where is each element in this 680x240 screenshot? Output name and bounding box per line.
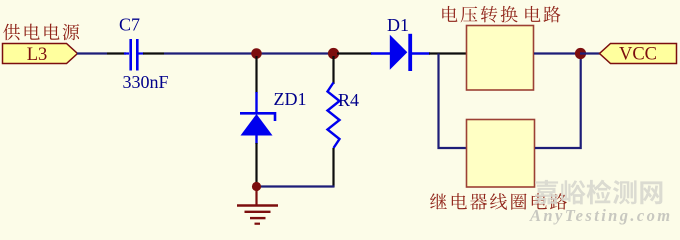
zener diode ZD1 bbox=[240, 92, 275, 144]
wire node C to VCC bbox=[580, 52, 600, 54]
diode D1 bbox=[390, 34, 412, 71]
pin D1 cathode bbox=[412, 52, 430, 54]
watermark 嘉峪检测网 bbox=[534, 180, 662, 205]
junction node A bbox=[251, 48, 262, 59]
port VCC bbox=[600, 44, 677, 65]
pin ZD1 bottom bbox=[255, 143, 257, 184]
svg-text:C7: C7 bbox=[119, 15, 140, 35]
ground bbox=[237, 188, 278, 224]
wire down-left branch bbox=[439, 54, 467, 149]
port L3 bbox=[3, 44, 78, 65]
ground wire horizontal bbox=[257, 185, 335, 187]
svg-text:330nF: 330nF bbox=[123, 72, 169, 92]
block relay coil bbox=[467, 120, 535, 188]
svg-text:L3: L3 bbox=[27, 45, 48, 65]
pin C7 left bbox=[107, 52, 126, 54]
annotation 电压转换电路 (voltage conversion circuit) bbox=[442, 6, 560, 23]
pin R4 bottom bbox=[332, 148, 334, 187]
pin D1 anode bbox=[337, 52, 372, 54]
pin ZD1 top bbox=[255, 56, 257, 93]
capacitor C7 bbox=[131, 39, 138, 71]
wire L3 to C7 bbox=[77, 52, 107, 54]
junction node B bbox=[328, 48, 339, 59]
svg-text:AnyTesting.com: AnyTesting.com bbox=[529, 206, 673, 225]
wire C7 to node A bbox=[164, 52, 256, 54]
resistor R4 bbox=[328, 83, 340, 149]
svg-text:D1: D1 bbox=[387, 15, 409, 35]
block voltage converter bbox=[467, 26, 534, 91]
annotation 继电器线圈电路 (relay coil circuit) bbox=[430, 193, 567, 210]
pin C7 right bbox=[139, 52, 145, 54]
junction ground node bbox=[252, 182, 261, 191]
wire down-right branch bbox=[535, 54, 581, 149]
wire node A to node B bbox=[256, 52, 334, 54]
junction node C bbox=[575, 48, 586, 59]
wire box1 to node C bbox=[534, 52, 580, 54]
svg-text:ZD1: ZD1 bbox=[274, 89, 307, 109]
annotation 供电电源 (supply power source) bbox=[3, 24, 79, 41]
svg-text:R4: R4 bbox=[338, 90, 359, 110]
svg-text:VCC: VCC bbox=[619, 44, 657, 64]
pin R4 top bbox=[332, 56, 334, 84]
